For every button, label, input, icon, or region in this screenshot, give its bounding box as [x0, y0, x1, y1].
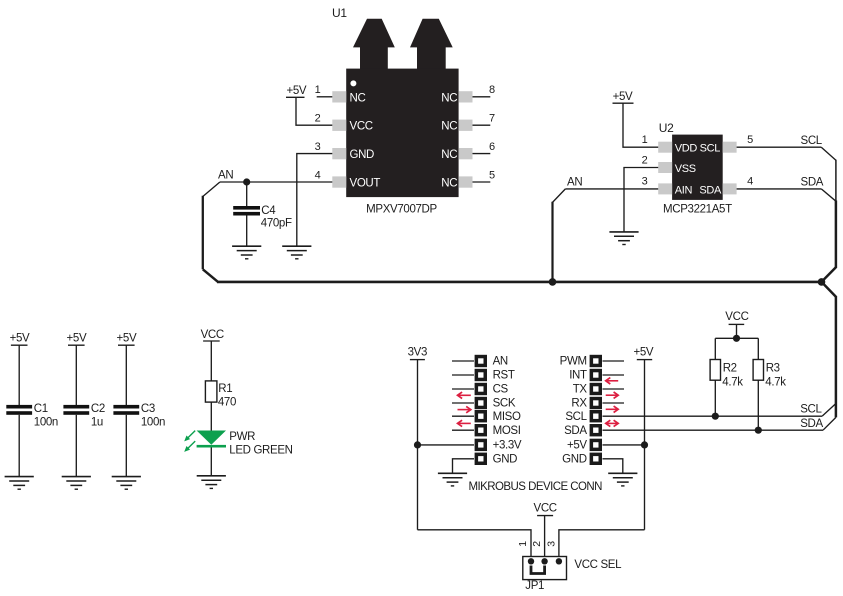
svg-text:VOUT: VOUT: [350, 178, 381, 190]
wire +5V to C2: [75, 345, 77, 405]
U1 pressure port P2: [410, 19, 453, 69]
LED emission arrow 2: [184, 441, 195, 452]
svg-text:2: 2: [315, 113, 321, 125]
wire AN to U1 pin 4: [220, 181, 332, 183]
U1 pin-1 index dot: [350, 80, 356, 86]
wire U2 pin 2 VSS to ground: [624, 168, 658, 232]
wire U1 pin 1 stub: [317, 96, 333, 98]
direction arrow INT (left): [606, 378, 619, 384]
U1 pin 4 stub: [332, 176, 346, 187]
ground at C1: [5, 477, 34, 490]
svg-text:NC: NC: [350, 92, 366, 104]
direction arrow RX (right): [606, 406, 619, 412]
svg-text:NC: NC: [441, 178, 457, 190]
svg-text:1: 1: [517, 541, 529, 547]
svg-text:1u: 1u: [91, 416, 103, 428]
wire right GND row to ground: [603, 459, 623, 474]
wire stub MISO row: [452, 415, 474, 417]
direction arrow MOSI (left): [458, 420, 471, 426]
wire +5V vertical (right): [644, 360, 646, 530]
svg-text:4.7k: 4.7k: [765, 376, 786, 388]
U2 pin 3 stub: [658, 183, 672, 194]
ground at C4: [232, 246, 261, 259]
svg-text:C2: C2: [91, 403, 105, 415]
U2 pin 2 stub: [658, 162, 672, 173]
wire SCL entry diagonal (top right): [821, 147, 836, 160]
jumper JP1 body: [523, 557, 567, 580]
wire C1 to ground: [18, 415, 20, 477]
junction dot R3/SDA: [755, 427, 762, 434]
U1 pressure port P1: [353, 19, 395, 69]
svg-text:4: 4: [315, 169, 321, 181]
svg-text:U1: U1: [332, 6, 347, 20]
junction dot +5V row: [641, 441, 648, 448]
svg-text:3: 3: [642, 176, 648, 188]
resistor R2: [710, 360, 720, 381]
wire SDA row to bus: [603, 429, 824, 431]
wire SDA exit diagonal (bottom right): [823, 417, 836, 430]
wire VCC tee horizontal: [715, 337, 758, 339]
svg-text:8: 8: [489, 84, 495, 96]
svg-text:5: 5: [489, 169, 495, 181]
wire 3V3 to JP1 pin 1: [418, 530, 532, 561]
wire +5V to U1 pin 2: [296, 97, 332, 125]
svg-text:GND: GND: [493, 453, 518, 465]
bus branch vertical to U2 AN: [551, 202, 553, 282]
svg-text:C4: C4: [261, 205, 276, 217]
bus corner diagonal from junction down: [822, 282, 836, 297]
svg-text:C3: C3: [141, 403, 155, 415]
svg-text:+5V: +5V: [117, 332, 137, 344]
LED cathode bar: [197, 445, 226, 448]
svg-text:TX: TX: [573, 384, 588, 396]
svg-text:+5V: +5V: [287, 85, 307, 97]
wire +5V to JP1 pin 3: [559, 530, 645, 561]
wire AN entry diagonal (U2): [553, 189, 566, 203]
svg-text:+5V: +5V: [67, 332, 87, 344]
junction dot R2/SCL: [712, 413, 719, 420]
U1 body: [346, 69, 458, 198]
svg-text:INT: INT: [569, 370, 587, 382]
svg-text:SDA: SDA: [699, 184, 722, 196]
svg-text:AN: AN: [493, 356, 508, 368]
junction dot bus/AN: [549, 278, 557, 286]
wire AN junction to C4: [246, 182, 248, 206]
svg-text:VSS: VSS: [675, 163, 696, 175]
resistor R1: [205, 381, 217, 402]
svg-text:R2: R2: [723, 363, 737, 375]
wire SCL exit diagonal (bottom right): [822, 404, 836, 417]
wire left GND row to ground: [453, 459, 475, 474]
svg-text:5: 5: [747, 134, 753, 146]
ground at U1 pin 3: [282, 246, 311, 259]
svg-text:2: 2: [642, 154, 648, 166]
svg-text:GND: GND: [350, 149, 375, 161]
wire U1 pin 6: [473, 153, 491, 155]
wire AN entry diagonal (left): [203, 182, 220, 197]
U2 pin 4 stub: [723, 183, 737, 194]
svg-text:JP1: JP1: [525, 580, 544, 592]
svg-text:R1: R1: [218, 383, 232, 395]
wire stub CS row: [452, 388, 474, 390]
bus vertical right upper: [835, 201, 838, 269]
svg-text:AN: AN: [218, 170, 233, 182]
wire to R3 top: [757, 338, 759, 359]
wire VCC to JP1 pin 2: [544, 516, 546, 562]
resistor R3: [753, 360, 763, 381]
bus corner diagonal to junction: [822, 267, 836, 282]
svg-text:+5V: +5V: [634, 347, 654, 359]
mikrobus right pin holes: [593, 358, 598, 461]
svg-text:4.7k: 4.7k: [722, 376, 743, 388]
ground at C3: [112, 477, 141, 490]
bus vertical left: [202, 196, 204, 269]
svg-text:3: 3: [315, 141, 321, 153]
wire +5V to U2 pin 1: [623, 103, 658, 147]
svg-text:SCL: SCL: [800, 404, 822, 416]
svg-text:100n: 100n: [34, 416, 58, 428]
svg-text:VDD: VDD: [675, 143, 698, 155]
bus corner diagonal bottom-left: [203, 269, 218, 282]
JP1 pin 1 pad: [528, 558, 534, 564]
wire U1 pin 8: [473, 96, 491, 98]
svg-text:100n: 100n: [141, 416, 165, 428]
svg-text:MCP3221A5T: MCP3221A5T: [663, 203, 732, 215]
svg-text:VCC SEL: VCC SEL: [574, 559, 622, 571]
svg-text:MPXV7007DP: MPXV7007DP: [366, 203, 437, 215]
svg-text:MISO: MISO: [493, 411, 521, 423]
svg-text:LED GREEN: LED GREEN: [229, 445, 292, 457]
svg-text:AIN: AIN: [675, 184, 693, 196]
svg-text:R3: R3: [766, 363, 780, 375]
svg-text:SCL: SCL: [801, 135, 823, 147]
U2 pin 1 stub: [658, 142, 672, 153]
JP1 pin 2 pad: [541, 558, 547, 564]
mikrobus left pin squares: [475, 355, 487, 465]
bus vertical right lower: [835, 296, 838, 417]
wire VCC to R1: [210, 341, 212, 381]
U1 pin 8 stub: [459, 91, 473, 102]
ground at mikrobus left: [438, 473, 467, 486]
capacitor C4: [233, 206, 260, 210]
svg-text:SDA: SDA: [800, 418, 823, 430]
ground at U2 VSS: [609, 232, 638, 245]
mikrobus left pin holes: [478, 358, 483, 461]
direction arrow MISO (right): [458, 406, 471, 412]
junction dot VCC tee: [733, 335, 740, 342]
svg-text:RST: RST: [493, 370, 515, 382]
svg-text:GND: GND: [562, 453, 587, 465]
svg-text:U2: U2: [659, 121, 674, 135]
junction dot bus right: [818, 278, 826, 286]
wire C4 to ground: [246, 216, 248, 247]
svg-text:3V3: 3V3: [408, 346, 427, 358]
svg-text:NC: NC: [441, 149, 457, 161]
wire VCC down: [736, 324, 738, 338]
wire SCL row to bus: [603, 415, 823, 417]
svg-text:470: 470: [218, 397, 236, 409]
wire +5V row: [603, 444, 645, 446]
svg-text:C1: C1: [34, 403, 48, 415]
svg-text:VCC: VCC: [350, 121, 373, 133]
wire R3 bottom to SDA: [757, 380, 759, 430]
wire +5V to C1: [18, 345, 20, 405]
svg-text:MOSI: MOSI: [493, 425, 521, 437]
LED emission arrow 1: [184, 431, 195, 442]
wire U1 pin 7: [473, 124, 491, 126]
bus vertical top right (thin segment): [835, 160, 837, 202]
direction arrow SDA (both ways): [606, 420, 619, 426]
svg-text:VCC: VCC: [201, 329, 224, 341]
svg-text:6: 6: [489, 141, 495, 153]
svg-text:+5V: +5V: [567, 440, 587, 452]
svg-text:1: 1: [315, 84, 321, 96]
wire stub SCK row: [452, 402, 474, 404]
U1 pin 5 stub: [459, 176, 473, 187]
svg-text:2: 2: [531, 541, 543, 547]
svg-text:+3.3V: +3.3V: [493, 440, 522, 452]
svg-text:3: 3: [545, 541, 557, 547]
svg-text:CS: CS: [493, 384, 509, 396]
U2 pin 5 stub: [723, 142, 737, 153]
svg-text:VCC: VCC: [725, 311, 748, 323]
wire R1 to LED: [210, 402, 212, 431]
svg-text:NC: NC: [441, 92, 457, 104]
JP1 jumper bracket pins 1-2: [531, 566, 545, 574]
U1 pin 7 stub: [459, 120, 473, 131]
svg-text:NC: NC: [441, 121, 457, 133]
bus horizontal: [217, 281, 822, 284]
wire SDA entry diagonal (top right): [821, 189, 836, 201]
svg-text:MIKROBUS DEVICE CONN: MIKROBUS DEVICE CONN: [468, 481, 602, 493]
wire 3V3 vertical: [417, 360, 419, 530]
ground at mikrobus right: [608, 473, 637, 486]
svg-text:7: 7: [489, 113, 495, 125]
wire +5V to C3: [125, 345, 127, 405]
wire +3.3V row: [418, 444, 475, 446]
wire R2 bottom to SCL: [714, 380, 716, 416]
junction dot 3V3 / +3.3V: [414, 441, 421, 448]
wire stub AN row: [452, 360, 474, 362]
U1 pin 3 stub: [332, 148, 346, 159]
JP1 pin 3 pad: [556, 558, 562, 564]
svg-text:AN: AN: [567, 177, 582, 189]
wire AN to U2 pin 3: [565, 188, 658, 190]
svg-text:1: 1: [642, 134, 648, 146]
svg-text:SCL: SCL: [565, 411, 587, 423]
junction dot AN / C4: [243, 178, 250, 185]
wire U2 pin 4 SDA: [737, 188, 822, 190]
svg-text:SCL: SCL: [700, 143, 721, 155]
svg-text:SCK: SCK: [493, 398, 516, 410]
wire U1 pin 3 to ground: [297, 154, 333, 247]
wire C2 to ground: [75, 415, 77, 477]
svg-text:470pF: 470pF: [261, 218, 292, 230]
wire stub PWM row: [603, 360, 625, 362]
capacitor C1: [6, 405, 32, 409]
wire stub RST row: [452, 374, 474, 376]
wire to R2 top: [714, 338, 716, 359]
svg-text:+5V: +5V: [10, 332, 30, 344]
svg-text:SDA: SDA: [564, 425, 587, 437]
LED PWR (green) triangle: [197, 431, 226, 445]
ground at C2: [62, 477, 91, 490]
wire stub INT row: [603, 374, 625, 376]
wire U1 pin 5: [473, 181, 491, 183]
U1 pin 2 stub: [332, 120, 346, 131]
svg-text:PWM: PWM: [560, 356, 587, 368]
U1 pin 1 stub: [332, 91, 346, 102]
svg-text:SDA: SDA: [801, 177, 824, 189]
direction arrow TX (right): [606, 392, 619, 398]
capacitor C2: [63, 405, 89, 409]
wire stub MOSI row: [452, 429, 474, 431]
svg-text:+5V: +5V: [613, 91, 633, 103]
svg-text:PWR: PWR: [229, 431, 255, 443]
capacitor C3: [113, 405, 139, 409]
wire U2 pin 5 SCL: [737, 146, 822, 148]
svg-text:RX: RX: [571, 398, 587, 410]
U1 pin 6 stub: [459, 148, 473, 159]
wire C3 to ground: [125, 415, 127, 477]
svg-text:VCC: VCC: [534, 503, 557, 515]
U2 body: [672, 135, 723, 200]
direction arrow SCK (left): [458, 392, 471, 398]
mikrobus right pin squares: [590, 355, 602, 465]
wire LED to ground: [210, 448, 212, 476]
svg-text:4: 4: [747, 176, 753, 188]
wire stub TX row: [603, 388, 625, 390]
ground at LED: [197, 476, 226, 489]
wire stub RX row: [603, 402, 625, 404]
